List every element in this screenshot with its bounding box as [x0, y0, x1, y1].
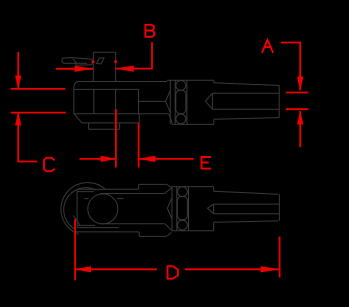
tube top edge (top view) — [214, 83, 279, 86]
arrowhead A up — [297, 111, 303, 125]
tube top edge (side view) — [214, 191, 279, 194]
slot top chamfer to hex — [164, 188, 171, 194]
dim C extension line — [115, 109, 117, 167]
hex chamfer arc top (top view) — [176, 81, 186, 91]
fork front face (side view) — [76, 189, 78, 227]
fork bottom edge (side view) — [77, 227, 119, 229]
arrowhead C right — [101, 156, 118, 162]
through line left of circle — [84, 198, 88, 200]
slot bottom chamfer to hex — [165, 224, 172, 230]
slot end vertical — [138, 89, 140, 114]
cotter pin lower prong — [75, 62, 93, 65]
arrowhead B right (pointing right) — [75, 66, 94, 72]
arrowhead D left — [74, 266, 91, 272]
dim D left extension line — [74, 219, 76, 280]
eye outer arc (side view) — [61, 183, 105, 235]
through line right of circle — [117, 198, 124, 200]
arrowhead A down — [297, 77, 303, 92]
pin hole edge left — [93, 89, 95, 113]
arrowhead vertical dim down — [15, 76, 21, 90]
fork inner line upper — [74, 88, 139, 90]
wire cone chord (top view) — [211, 93, 213, 109]
fork top edge (side view) — [77, 188, 139, 190]
dim B tick left — [92, 60, 95, 63]
fork body bottom edge (top view) — [74, 113, 169, 115]
hex right vertical (top view) — [186, 80, 188, 124]
label B — [145, 25, 154, 37]
pin hole edge right — [115, 89, 117, 113]
tube tip face (top view) — [278, 85, 280, 117]
fork body top-left corner arc — [74, 82, 78, 89]
pin hole circle — [88, 194, 118, 224]
collar bottom lower line — [139, 235, 166, 237]
hex right vertical (side view) — [188, 187, 190, 231]
dim D line right — [185, 268, 280, 270]
dim C arrow line — [79, 158, 116, 160]
hex flat vertical 2 — [174, 81, 176, 125]
tube bore line lower — [212, 108, 279, 110]
dim D right extension line — [279, 237, 281, 278]
sub-tab left vertical — [88, 123, 90, 129]
hex left apex (top view) — [166, 90, 171, 112]
hex chamfer barrel middle (top view) — [176, 90, 186, 113]
hex bottom edge (top view) — [172, 123, 214, 125]
cotter pin upper prong bottom — [63, 62, 87, 64]
lower tab edge — [82, 122, 139, 124]
dim B tick right — [114, 60, 117, 63]
dim A leader line — [281, 43, 300, 91]
eye inner arc (side view) — [64, 188, 96, 230]
collar-to-hex chamfer top — [167, 184, 172, 187]
arrowhead D right — [261, 266, 281, 272]
dim B leader from label — [115, 42, 152, 69]
vertical dim line lower to C label — [18, 112, 37, 162]
arrowhead vertical dim up — [15, 112, 21, 126]
body-to-hex bottom fillet — [169, 114, 173, 125]
pin slot detail inside boss — [97, 58, 105, 64]
fork centerline ledge — [139, 100, 166, 102]
fork body top edge (top view) — [78, 81, 167, 83]
dim B left leader — [56, 68, 93, 70]
collar step vertical top — [138, 184, 140, 189]
dim D line left — [76, 268, 157, 270]
hex top edge (top view) — [167, 79, 214, 81]
label C — [44, 158, 54, 171]
hex flat vertical 1 (side view) — [171, 187, 173, 231]
vertical dim line upper (C) — [17, 52, 19, 89]
wire cone apex (top view) — [205, 93, 212, 109]
fork front face (top view) — [73, 89, 75, 114]
cotter pin upper prong top — [62, 58, 93, 60]
sub-tab right vertical — [119, 123, 121, 129]
clevis pin boss left edge — [92, 52, 94, 81]
dim A lower leader — [299, 111, 301, 147]
tube shoulder verticals (side view) — [213, 187, 215, 231]
hex chamfer arc bottom (top view) — [176, 114, 186, 124]
dim E extension line — [138, 123, 140, 168]
clevis pin boss right edge — [115, 52, 117, 81]
collar-to-hex chamfer bottom — [167, 233, 172, 237]
cotter pin cross mark — [73, 59, 77, 63]
clevis pin boss top — [93, 51, 115, 53]
fork top chamfer line — [78, 191, 94, 193]
dim A lower extension line — [286, 108, 309, 110]
tube bore line lower (side view) — [214, 213, 280, 215]
hex left apex (side view) — [167, 198, 172, 219]
tube bottom edge (side view) — [214, 221, 279, 222]
collar bottom line (side view) — [74, 231, 140, 233]
hex top edge (side view) — [172, 186, 214, 188]
label D — [168, 266, 179, 279]
vertical dim extension upper — [11, 88, 66, 90]
tube tip face (side view) — [278, 194, 280, 221]
vertical dim extension lower — [11, 112, 66, 114]
tube bore line upper — [212, 92, 279, 94]
hex chamfer arc bottom (side view) — [177, 220, 187, 230]
wire cone apex (side view) — [208, 204, 214, 214]
slot diagonal (side view) — [73, 215, 80, 225]
dim A upper extension line — [286, 92, 309, 94]
hex chamfer arc top (side view) — [177, 187, 187, 197]
lower sub-tab edge — [89, 128, 120, 130]
fork bottom chamfer line — [78, 224, 95, 226]
label E — [202, 157, 211, 169]
tube bore line upper (side view) — [214, 203, 280, 205]
slot bottom edge line (side view) — [100, 223, 165, 225]
arrowhead B left (pointing left) — [115, 66, 134, 72]
lower tab right vertical — [138, 114, 140, 123]
slot top edge line (side view) — [100, 193, 164, 195]
tube bottom edge (top view) — [214, 118, 279, 120]
hex bottom edge (side view) — [172, 230, 214, 232]
dim E arrow line — [139, 158, 194, 160]
fork bottom chamfer diagonal — [74, 113, 82, 123]
collar step vertical bottom — [138, 232, 140, 236]
hex flat vertical 1 — [169, 81, 171, 125]
hex flat vertical 2 (side view) — [176, 187, 178, 231]
label A — [262, 40, 273, 52]
collar top line (side view) — [139, 183, 167, 185]
hex chamfer barrel middle (side view) — [177, 197, 187, 220]
tube shoulder verticals (top view) — [213, 80, 215, 124]
wire cone chord (side view) — [213, 204, 215, 214]
cotter pin left point — [62, 58, 63, 63]
arrowhead E left — [138, 156, 156, 162]
